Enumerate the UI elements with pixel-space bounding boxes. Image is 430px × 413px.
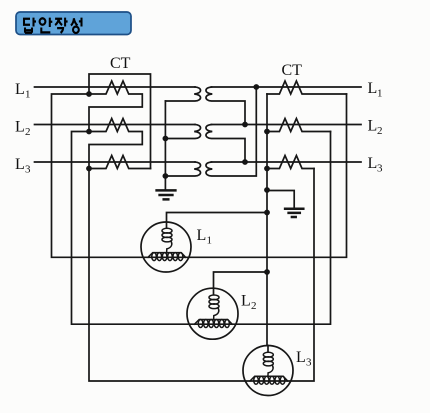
wire CT secondary loop (left) xyxy=(89,74,151,169)
svg-text:3: 3 xyxy=(377,163,383,175)
hangul 작 xyxy=(55,18,68,33)
wire R3 secondary line to terminal L3 xyxy=(212,161,362,163)
svg-text:CT: CT xyxy=(110,55,131,72)
wire L1 main line left xyxy=(35,86,196,88)
svg-text:L: L xyxy=(15,119,25,136)
inductor M2 potential coil xyxy=(209,295,219,320)
svg-text:1: 1 xyxy=(25,89,31,101)
title badge xyxy=(16,12,131,35)
svg-text:2: 2 xyxy=(377,125,383,137)
svg-text:L: L xyxy=(368,118,378,135)
transformer winding R2 (right column middle) xyxy=(206,125,245,163)
node k2 xyxy=(86,129,92,135)
instrument M3 circle xyxy=(243,346,293,396)
inductor M1 potential coil xyxy=(162,228,172,253)
wire left neutral bus to ground xyxy=(164,101,166,190)
wire L2 main line left xyxy=(35,124,196,126)
wire takeoff k1 to instrument L1 current coil and up right side xyxy=(52,94,347,257)
svg-text:L: L xyxy=(368,80,378,97)
hangul 성 xyxy=(71,18,82,33)
inductor M3 potential coil xyxy=(263,352,273,376)
node neutral W2 xyxy=(163,136,169,142)
node bus r2 xyxy=(264,166,270,172)
svg-text:3: 3 xyxy=(25,164,31,176)
ground (left) xyxy=(157,190,176,199)
svg-text:L: L xyxy=(15,81,25,98)
CT winding CT4 (right row 1) xyxy=(267,81,347,94)
svg-text:L: L xyxy=(296,349,306,366)
node bus m2 xyxy=(264,269,270,275)
transformer winding W3 (left column bottom) xyxy=(165,162,200,176)
hangul 안 xyxy=(40,18,53,33)
node bus r1 xyxy=(264,129,270,135)
junction dots xyxy=(86,84,270,275)
hangul 답 xyxy=(24,18,36,33)
CT winding CT3 (left row 3) xyxy=(89,156,151,169)
inductor M1 current coil xyxy=(148,253,186,261)
wire M3 potential lead (bus end) xyxy=(267,346,269,353)
node bus m1 xyxy=(264,210,270,216)
svg-text:2: 2 xyxy=(251,300,257,312)
CT winding CT2 (left row 2) and hook wire to node k3 xyxy=(89,119,142,169)
CT winding CT5 (right row 2) xyxy=(267,119,331,132)
CT winding CT1 (left row 1) and hook wire to node k2 xyxy=(89,81,142,132)
node delta a xyxy=(253,84,259,90)
wire R2 secondary line to terminal L2 xyxy=(212,124,362,126)
svg-text:3: 3 xyxy=(306,357,312,369)
svg-text:L: L xyxy=(197,227,207,244)
instrument M1 circle xyxy=(141,222,191,272)
inductor M3 current coil xyxy=(250,376,288,384)
inductor M2 current coil xyxy=(195,320,233,328)
svg-text:1: 1 xyxy=(207,235,213,247)
svg-text:2: 2 xyxy=(25,126,31,138)
ground (right) xyxy=(285,209,303,217)
svg-text:L: L xyxy=(368,155,378,172)
transformer winding W1 (left column top) xyxy=(165,87,200,101)
node delta b xyxy=(242,122,248,128)
wire takeoff k3 to instrument L3 current coil and up right side xyxy=(89,169,314,382)
wire M2 potential lead to bus xyxy=(214,272,268,294)
svg-text:1: 1 xyxy=(377,88,383,100)
transformer winding R1 (right column top) xyxy=(206,87,245,125)
node neutral W3 xyxy=(163,173,169,179)
node delta c xyxy=(242,159,248,165)
transformer winding W2 (left column middle) xyxy=(165,125,200,139)
wire right ground branch xyxy=(267,191,294,208)
transformer winding R3 (right column bottom) xyxy=(206,87,256,176)
svg-text:L: L xyxy=(241,293,251,310)
wire M1 potential lead to bus xyxy=(167,213,268,228)
wire R1 secondary line to terminal L1 xyxy=(212,86,362,88)
node bus ground xyxy=(264,187,270,193)
wire takeoff k2 to instrument L2 current coil and up right side xyxy=(72,132,331,325)
node k3 xyxy=(86,166,92,172)
wire L3 main line left xyxy=(35,161,196,163)
wire right secondary common bus xyxy=(266,94,268,346)
node k1 xyxy=(86,91,92,97)
CT winding CT6 (right row 3) xyxy=(267,156,314,169)
svg-text:L: L xyxy=(15,156,25,173)
instrument M2 circle xyxy=(187,288,238,339)
svg-text:CT: CT xyxy=(282,62,303,79)
